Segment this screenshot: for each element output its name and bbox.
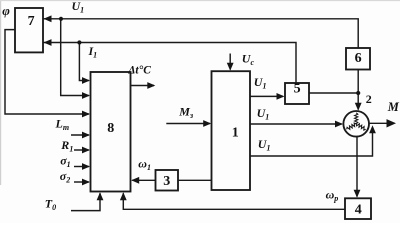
svg-text:7: 7 xyxy=(28,14,35,29)
svg-text:6: 6 xyxy=(355,51,362,66)
svg-text:1: 1 xyxy=(232,125,239,140)
svg-text:3: 3 xyxy=(163,174,170,189)
svg-text:8: 8 xyxy=(107,121,114,136)
svg-text:5: 5 xyxy=(294,81,301,96)
svg-text:φ: φ xyxy=(2,3,10,18)
svg-text:Δt°C: Δt°C xyxy=(127,65,151,77)
svg-text:2: 2 xyxy=(366,92,372,106)
svg-text:M: M xyxy=(387,100,400,114)
svg-text:4: 4 xyxy=(355,202,362,217)
